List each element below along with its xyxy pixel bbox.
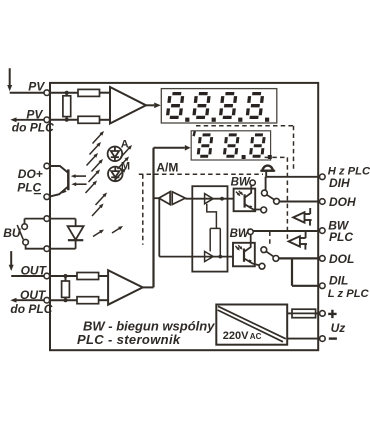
terminal Uz + bbox=[320, 311, 326, 317]
node junction dot PV bottom bbox=[65, 118, 69, 122]
svg-text:do PLC: do PLC bbox=[10, 302, 52, 316]
terminal OUT do PLC bbox=[44, 297, 50, 303]
terminal OUT bbox=[44, 273, 50, 279]
display DISP1 digit 3 bbox=[220, 94, 235, 118]
comparator T1 bbox=[205, 194, 214, 204]
buffer pair back-to-back bbox=[155, 197, 159, 199]
wire PV do PLC with left arrow bbox=[10, 117, 44, 122]
node + sign bbox=[328, 310, 336, 318]
schmitt trigger ST2 (DIL) bbox=[289, 236, 300, 246]
dashed link BW rail to lower switch bbox=[269, 232, 271, 247]
wire DOH rail bbox=[279, 201, 319, 203]
wire PV top rail bbox=[50, 92, 78, 94]
switch S2 contact bbox=[273, 256, 279, 262]
terminal BW PLC bbox=[320, 228, 326, 234]
wire light ray 11 bbox=[92, 204, 104, 217]
terminal U2 emitter contact bbox=[259, 263, 265, 269]
resistor R2 (shunt vertical) bbox=[66, 93, 68, 120]
wire PV bottom rail bbox=[50, 119, 78, 121]
switch S1 pivot bbox=[262, 190, 268, 196]
wire PS to fuse bbox=[287, 312, 292, 314]
wire DIL branch bbox=[292, 258, 320, 285]
terminal PV bbox=[44, 90, 50, 96]
display DISP2 decimal point 2 bbox=[268, 155, 272, 159]
wire diode rail bottom bbox=[50, 240, 76, 249]
dashed A/M select line bbox=[139, 173, 263, 175]
comparator T2 bbox=[205, 251, 214, 261]
wire light ray 6 bbox=[86, 181, 98, 194]
svg-text:A: A bbox=[121, 138, 129, 150]
wire BU top bbox=[25, 219, 45, 224]
display DISP1 box bbox=[161, 89, 276, 123]
resistor R1 (series top) bbox=[78, 89, 100, 96]
node junction dot comparator bottom bbox=[218, 255, 222, 259]
display DISP1 decimal point 1 bbox=[185, 118, 189, 122]
svg-text:Uz: Uz bbox=[331, 321, 346, 335]
wire R1 to amp bbox=[100, 92, 111, 94]
switch BU contact top bbox=[22, 224, 28, 230]
terminal DO+ bottom bbox=[44, 194, 50, 200]
node junction dot OUT top bbox=[64, 274, 68, 278]
wire OUT feed with down arrow bbox=[9, 251, 44, 276]
svg-text:A/M: A/M bbox=[156, 160, 178, 174]
wire diode rail top bbox=[50, 219, 76, 226]
node junction dot comparator top bbox=[220, 197, 224, 201]
display DISP2 leading tick bbox=[194, 131, 195, 136]
dashed vertical A/M left bbox=[142, 174, 144, 245]
node junction dot OUT bottom bbox=[64, 298, 68, 302]
fuse F1 bbox=[292, 309, 316, 318]
display DISP2 digit 3 bbox=[250, 135, 264, 156]
wire light ray 1 bbox=[93, 131, 105, 144]
switch S1 contact bbox=[274, 198, 280, 204]
dashed boundary right vertical bbox=[293, 126, 295, 172]
display DISP1 decimal point 4 bbox=[265, 118, 269, 122]
power supply diagonal band bbox=[218, 306, 286, 342]
schmitt trigger ST1 (DIH) bbox=[293, 212, 304, 222]
comparator box U3 bbox=[192, 186, 227, 271]
switch S2 blade bbox=[266, 252, 273, 257]
switch S1 blade bbox=[267, 195, 274, 200]
terminal DOL bbox=[320, 256, 326, 262]
wire light ray 9 bbox=[115, 168, 127, 181]
svg-text:DO+: DO+ bbox=[18, 167, 43, 181]
display DISP1 digit 4 bbox=[247, 94, 262, 118]
wire OUT bottom rail bbox=[50, 299, 77, 301]
LED M bbox=[108, 167, 123, 182]
switch S2 pivot bbox=[261, 247, 267, 253]
wire branch down to lower comparator bbox=[159, 198, 233, 256]
svg-text:BW - biegun wspólny: BW - biegun wspólny bbox=[83, 318, 215, 333]
svg-text:DOH: DOH bbox=[329, 195, 356, 209]
resistor R6 (series bottom) bbox=[77, 297, 99, 304]
node junction dot PV top bbox=[65, 91, 69, 95]
terminal Uz - bbox=[320, 336, 326, 342]
svg-text:BW: BW bbox=[231, 177, 251, 189]
wire light ray 4 bbox=[92, 159, 104, 172]
display DISP1 digit 1 bbox=[167, 94, 182, 118]
display DISP1 decimal point 2 bbox=[212, 118, 216, 122]
op-amp A1 (PV amplifier) bbox=[110, 87, 146, 124]
resistor R5 (shunt vertical) bbox=[65, 276, 67, 300]
LED A bbox=[108, 147, 123, 162]
display DISP1 digit 2 bbox=[194, 94, 209, 118]
wire light ray 7 bbox=[121, 145, 133, 158]
terminal BW lower bbox=[248, 229, 253, 234]
wire light ray 5 bbox=[89, 170, 101, 183]
wire dome stem and H z PLC rail bbox=[266, 171, 320, 191]
transistor Q1 phototransistor bbox=[50, 166, 69, 197]
wire fuse to + terminal bbox=[316, 312, 320, 314]
display DISP1 decimal point 3 bbox=[238, 118, 242, 122]
svg-text:AC: AC bbox=[250, 332, 262, 341]
wire A2 output to riser bbox=[143, 286, 154, 288]
dashed vertical switch column bbox=[286, 157, 288, 239]
terminal U1 emitter contact bbox=[261, 207, 267, 213]
wire comparator feedback bbox=[207, 204, 221, 257]
terminal PV do PLC bbox=[44, 117, 50, 123]
wire DOL rail bbox=[279, 257, 320, 259]
terminal BU top bbox=[44, 216, 50, 222]
switch BU blade bbox=[17, 225, 23, 239]
svg-text:OUT: OUT bbox=[20, 288, 47, 302]
wire arrow amp to display bbox=[146, 103, 161, 109]
terminal DIL bbox=[320, 283, 326, 289]
svg-text:PLC - sterownik: PLC - sterownik bbox=[77, 332, 181, 347]
power supply PS1 box bbox=[216, 305, 287, 345]
terminal BW upper bbox=[250, 180, 255, 185]
optocoupler U1 bbox=[234, 189, 256, 212]
switch BU contact bottom bbox=[23, 239, 29, 245]
wire light ray 12 bbox=[93, 230, 104, 237]
optocoupler U2 bbox=[250, 235, 252, 243]
wire light ray 13 bbox=[112, 226, 123, 233]
wire light ray 3 bbox=[87, 153, 99, 166]
svg-text:PLC: PLC bbox=[17, 180, 41, 194]
display DISP2 digit 2 bbox=[224, 135, 238, 156]
terminal H z PLC bbox=[320, 174, 326, 180]
svg-text:DIL: DIL bbox=[329, 274, 348, 288]
wire OUT top rail bbox=[50, 275, 77, 277]
diode D1 bbox=[68, 226, 84, 240]
dashed boundary top of DISP2 block bbox=[196, 125, 294, 127]
svg-text:DOL: DOL bbox=[329, 252, 354, 266]
outer enclosure box bbox=[50, 83, 318, 350]
resistor R3 (series bottom) bbox=[78, 116, 100, 123]
op-amp A2 (OUT amplifier) bbox=[108, 270, 143, 305]
svg-text:PLC: PLC bbox=[329, 230, 353, 244]
svg-text:PV: PV bbox=[28, 80, 45, 94]
wire buffer to comparator box bbox=[185, 198, 233, 200]
wire BU bottom bbox=[26, 245, 44, 249]
wire light ray 10 bbox=[96, 193, 108, 206]
wire BW PLC rail bbox=[252, 230, 254, 232]
terminal DOH bbox=[320, 199, 326, 205]
resistor R4 (series top) bbox=[77, 273, 99, 280]
wire OUT do PLC with left arrow bbox=[10, 298, 44, 303]
wire from OUT amp up to DISP2 bbox=[152, 148, 154, 288]
wire light ray 2 bbox=[90, 142, 102, 155]
terminal BU bottom bbox=[44, 246, 50, 252]
terminal DO+ top bbox=[44, 163, 50, 169]
wire arrow into DISP2 bbox=[154, 145, 191, 151]
node - sign bbox=[329, 337, 337, 339]
wire PS to - terminal bbox=[287, 338, 319, 340]
buzzer dome bbox=[260, 170, 275, 172]
svg-text:DIH: DIH bbox=[329, 176, 350, 190]
svg-text:220V: 220V bbox=[223, 330, 249, 342]
wire light ray 8 bbox=[118, 157, 130, 170]
display DISP2 decimal point 1 bbox=[242, 155, 246, 159]
display DISP2 digit 1 bbox=[198, 135, 212, 156]
wire PV feed with down arrow bbox=[7, 68, 44, 93]
svg-text:BW: BW bbox=[230, 228, 250, 240]
wire photo arrows into Q1 bbox=[71, 174, 87, 186]
display DISP2 box bbox=[191, 131, 270, 160]
svg-text:L z PLC: L z PLC bbox=[328, 288, 370, 300]
dashed link DISP2 corner to switch column bbox=[265, 156, 288, 158]
